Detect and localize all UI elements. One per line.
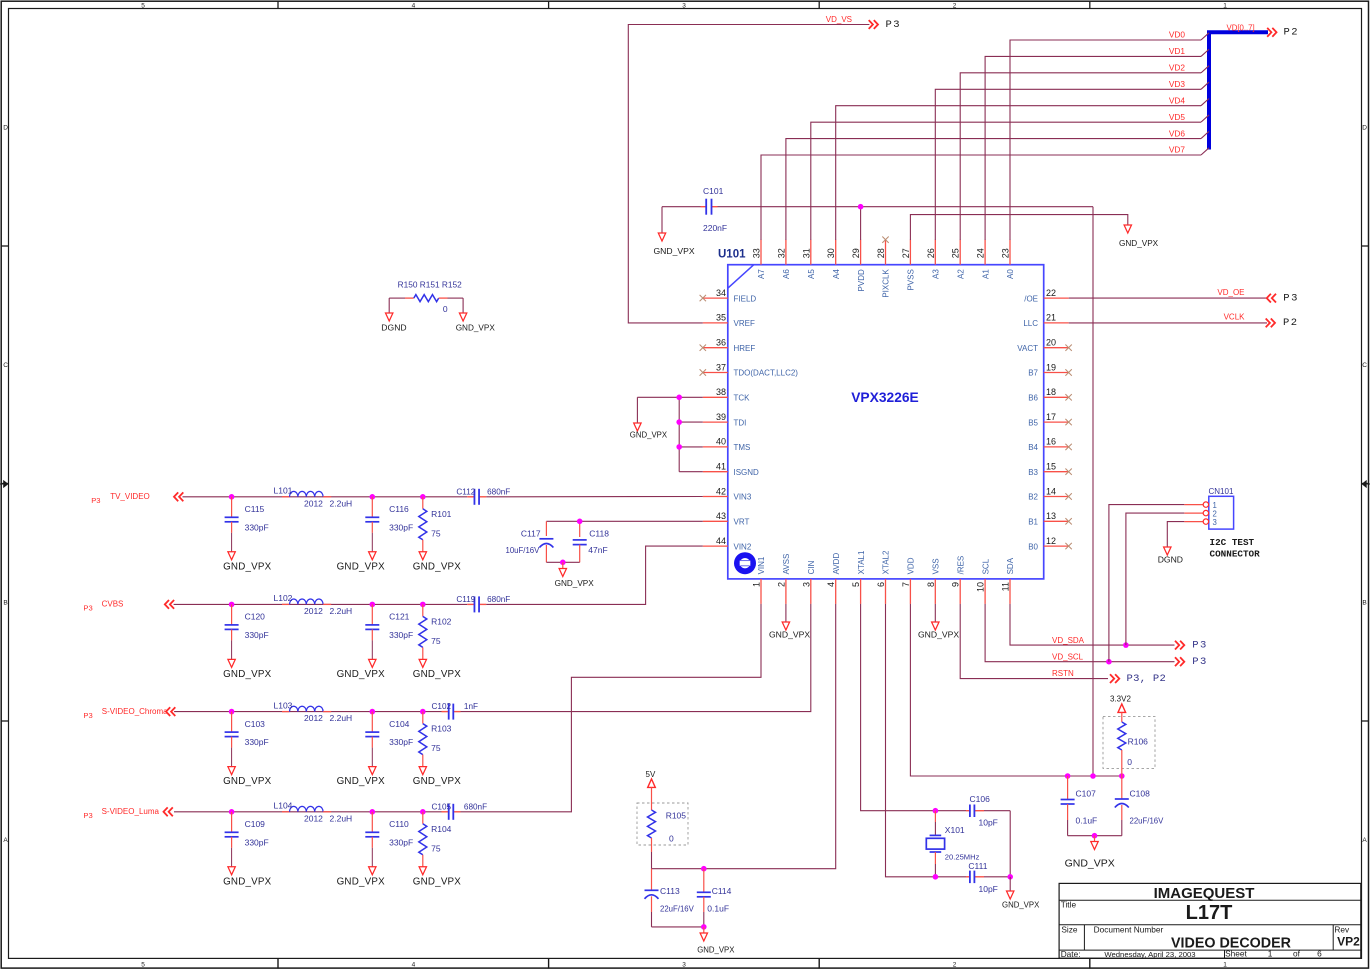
svg-text:XTAL1: XTAL1 (857, 550, 866, 574)
svg-text:22uF/16V: 22uF/16V (660, 904, 695, 913)
svg-text:C111: C111 (968, 861, 987, 871)
pin 40 TMS (703, 437, 751, 452)
pin 18 B6 (1028, 387, 1068, 402)
svg-text:30: 30 (826, 248, 836, 258)
no-connect pin 14 (1065, 493, 1071, 499)
pin 42 VIN3 (703, 486, 752, 501)
inductor L104 2.2uH (274, 801, 353, 824)
svg-text:10uF/16V: 10uF/16V (506, 546, 541, 555)
svg-text:GND_VPX: GND_VPX (223, 876, 271, 887)
ground GND_VPX at crystal (1002, 877, 1040, 910)
svg-text:P3: P3 (886, 19, 902, 31)
svg-text:R103: R103 (431, 724, 452, 734)
svg-text:5: 5 (141, 2, 145, 9)
svg-text:35: 35 (716, 313, 726, 323)
resistor R150 R151 R152 0 ohm (389, 280, 463, 314)
no-connect pin 34 (700, 295, 706, 301)
svg-text:B3: B3 (1028, 468, 1038, 477)
pin 29 PVDD (851, 240, 866, 292)
svg-text:XTAL2: XTAL2 (882, 550, 891, 574)
svg-text:P3: P3 (83, 711, 92, 720)
svg-text:10pF: 10pF (979, 884, 998, 894)
svg-text:0: 0 (1127, 757, 1132, 767)
svg-text:0: 0 (443, 304, 448, 314)
svg-text:P3: P3 (83, 604, 92, 613)
svg-text:C113: C113 (660, 886, 680, 896)
svg-text:GND_VPX: GND_VPX (337, 776, 385, 787)
svg-text:GND_VPX: GND_VPX (697, 946, 735, 955)
pin 22 /OE (1024, 288, 1068, 303)
svg-text:47nF: 47nF (588, 545, 607, 555)
svg-text:C116: C116 (389, 504, 409, 514)
svg-text:C: C (1362, 362, 1367, 369)
no-connect pin 15 (1065, 469, 1071, 475)
svg-text:42: 42 (716, 486, 726, 496)
port P3 P2 RSTN (1110, 673, 1166, 685)
svg-text:17: 17 (1046, 412, 1056, 422)
ground GND_VPX at C104 (337, 767, 385, 788)
svg-text:VIN1: VIN1 (757, 556, 766, 574)
svg-text:C120: C120 (245, 612, 266, 622)
svg-text:GND_VPX: GND_VPX (223, 669, 271, 680)
inductor L103 2.2uH (274, 700, 353, 723)
wire pin 8 VSS to ground (934, 604, 936, 622)
pin 19 B7 (1028, 362, 1068, 377)
svg-text:VPX3226E: VPX3226E (851, 390, 919, 405)
svg-text:PVSS: PVSS (907, 269, 916, 290)
wire TV_VIDEO to pin 42 VIN3 (486, 496, 703, 498)
wire TV_VIDEO (183, 496, 468, 498)
svg-text:TMS: TMS (734, 443, 751, 452)
svg-text:220nF: 220nF (703, 223, 727, 233)
svg-text:B2: B2 (1028, 493, 1038, 502)
svg-text:4: 4 (412, 961, 416, 968)
svg-text:A: A (3, 837, 8, 844)
svg-text:B: B (1362, 600, 1366, 607)
pin 43 VRT (703, 511, 750, 526)
svg-text:6: 6 (1317, 948, 1322, 958)
svg-text:19: 19 (1046, 362, 1056, 372)
svg-text:C101: C101 (703, 186, 724, 196)
ground GND_VPX at JTAG (630, 423, 668, 440)
ground DGND at CN101 (1158, 547, 1183, 565)
wire VD_VS from pin 35 VREF (628, 25, 869, 323)
svg-text:7: 7 (901, 582, 911, 587)
svg-text:GND_VPX: GND_VPX (337, 876, 385, 887)
svg-text:TCK: TCK (734, 394, 751, 403)
pin 5 XTAL1 (851, 550, 866, 604)
svg-text:Document Number: Document Number (1094, 924, 1164, 934)
svg-text:VD7: VD7 (1169, 145, 1186, 155)
svg-text:VD4: VD4 (1169, 95, 1186, 105)
svg-text:A5: A5 (807, 269, 816, 279)
svg-text:5: 5 (851, 582, 861, 587)
svg-text:330pF: 330pF (389, 837, 413, 847)
svg-text:C109: C109 (245, 819, 266, 829)
no-connect pin 36 (700, 345, 706, 351)
svg-text:GND_VPX: GND_VPX (413, 776, 461, 787)
junction VD_SCL CN101 (1106, 659, 1112, 665)
svg-text:VD_VS: VD_VS (826, 15, 852, 24)
port P3 S-VIDEO_Chroma (83, 707, 175, 720)
junction C116 (370, 494, 376, 500)
svg-text:0.1uF: 0.1uF (1076, 816, 1098, 826)
svg-text:22uF/16V: 22uF/16V (1130, 817, 1165, 826)
svg-text:GND_VPX: GND_VPX (1119, 239, 1159, 248)
svg-text:VSS: VSS (932, 558, 941, 574)
svg-text:B: B (3, 600, 7, 607)
svg-text:VD_SCL: VD_SCL (1052, 653, 1084, 662)
svg-text:GND_VPX: GND_VPX (555, 579, 595, 588)
power 3.3V2 (1110, 695, 1131, 723)
no-connect pin 12 (1065, 543, 1071, 549)
junction C120 (229, 602, 235, 608)
svg-text:B5: B5 (1028, 418, 1038, 427)
svg-text:24: 24 (976, 248, 986, 258)
junction ground node (560, 560, 566, 566)
capacitor C103 330pF (225, 712, 269, 767)
svg-text:Date:: Date: (1061, 949, 1081, 959)
wire RSTN from pin 9 /RES (960, 604, 1108, 679)
pin 44 VIN2 (703, 536, 752, 551)
wire JTAG tie (637, 397, 702, 471)
ground GND_VPX at R104 (413, 867, 461, 888)
svg-text:X101: X101 (945, 825, 965, 835)
svg-text:2.2uH: 2.2uH (330, 713, 353, 723)
svg-text:GND_VPX: GND_VPX (223, 561, 271, 572)
svg-text:15: 15 (1046, 462, 1056, 472)
svg-text:AVSS: AVSS (782, 554, 791, 575)
ground DGND left (381, 313, 406, 332)
svg-text:40: 40 (716, 437, 726, 447)
svg-text:P2: P2 (1283, 317, 1299, 329)
no-connect pin 18 (1065, 394, 1071, 400)
pin 20 VACT (1017, 338, 1068, 353)
svg-text:VD6: VD6 (1169, 128, 1186, 138)
svg-text:Sheet: Sheet (1225, 948, 1247, 958)
svg-text:C106: C106 (970, 794, 991, 804)
pin 21 LLC (1023, 313, 1068, 328)
svg-text:2012: 2012 (304, 713, 323, 723)
crystal X101 20.25MHz (926, 811, 979, 877)
svg-text:CVBS: CVBS (102, 600, 124, 609)
svg-text:TV_VIDEO: TV_VIDEO (110, 492, 150, 501)
svg-text:P3: P3 (1192, 639, 1208, 651)
junction PVDD (858, 204, 864, 210)
power 5V (646, 770, 656, 795)
svg-text:C112: C112 (456, 487, 475, 496)
pin 30 A4 (826, 240, 841, 279)
pin 31 A5 (801, 240, 816, 279)
svg-text:C: C (3, 362, 8, 369)
svg-text:2: 2 (776, 582, 786, 587)
svg-text:VDD: VDD (907, 557, 916, 574)
wire VD7 (761, 148, 1209, 240)
svg-text:/RES: /RES (956, 556, 965, 575)
wire VD6 (786, 131, 1209, 240)
wire CN101 pin 3 to DGND (1167, 522, 1184, 547)
capacitor C121 330pF (365, 604, 413, 659)
wire VD2 (960, 66, 1209, 240)
svg-text:10pF: 10pF (979, 818, 998, 828)
pin 27 PVSS (901, 240, 916, 291)
svg-text:12: 12 (1046, 536, 1056, 546)
ground GND_VPX at PVSS (1119, 225, 1159, 248)
junction C111 right (1007, 874, 1013, 880)
ground GND_VPX at C115 (223, 552, 271, 573)
svg-text:D: D (1362, 125, 1367, 132)
svg-text:330pF: 330pF (245, 837, 269, 847)
pin 13 B1 (1028, 511, 1068, 526)
ground GND_VPX at R101 (413, 552, 461, 573)
label I2C TEST CONNECTOR (1210, 537, 1261, 560)
svg-text:C121: C121 (389, 612, 410, 622)
pin 17 B5 (1028, 412, 1068, 427)
svg-text:34: 34 (716, 288, 726, 298)
svg-text:TDI: TDI (734, 418, 747, 427)
svg-text:680nF: 680nF (487, 595, 510, 604)
port P2 VD[0..7] (1227, 24, 1300, 39)
wire CVBS to pin 44 VIN2 (486, 546, 703, 604)
svg-text:DGND: DGND (381, 322, 406, 332)
wire CVBS (174, 603, 468, 605)
pin 28 PIXCLK (876, 240, 891, 298)
pin 3 CIN (801, 560, 816, 604)
resistor R106 0 ohm (1103, 716, 1155, 776)
svg-text:GND_VPX: GND_VPX (413, 561, 461, 572)
svg-text:31: 31 (801, 248, 811, 258)
ground GND_VPX at C103 (223, 767, 271, 788)
svg-text:P3, P2: P3, P2 (1127, 673, 1167, 685)
port P3 VD_SDA (1175, 639, 1208, 651)
svg-text:33: 33 (752, 248, 762, 258)
svg-text:680nF: 680nF (464, 802, 487, 811)
junction ground C107 C108 (1092, 833, 1098, 839)
svg-text:B4: B4 (1028, 443, 1038, 452)
svg-text:C105: C105 (432, 802, 452, 811)
svg-text:L17T: L17T (1186, 902, 1233, 924)
junction R102 (420, 602, 426, 608)
junction R101 (420, 494, 426, 500)
svg-text:VD[0..7]: VD[0..7] (1227, 24, 1255, 33)
resistor R104 75 (419, 812, 452, 867)
svg-text:1: 1 (1223, 961, 1227, 968)
ground GND_VPX at C120 (223, 659, 271, 680)
svg-text:R104: R104 (431, 824, 452, 834)
inductor L101 2.2uH (274, 486, 353, 509)
no-connect pin 13 (1065, 518, 1071, 524)
svg-text:/OE: /OE (1024, 294, 1038, 303)
svg-text:20: 20 (1046, 338, 1056, 348)
svg-text:680nF: 680nF (487, 487, 510, 496)
svg-text:8: 8 (926, 582, 936, 587)
pin 33 A7 (752, 240, 767, 279)
wire CN101 pin 2 to VD_SDA (1126, 513, 1184, 645)
capacitor C110 330pF (365, 812, 413, 867)
svg-text:AVDD: AVDD (832, 553, 841, 575)
svg-text:S-VIDEO_Luma: S-VIDEO_Luma (102, 807, 160, 816)
port P3 VD_OE (1267, 292, 1299, 304)
svg-text:D: D (3, 125, 8, 132)
pin 24 A1 (976, 240, 991, 279)
svg-text:5V: 5V (646, 770, 656, 779)
svg-text:2.2uH: 2.2uH (330, 813, 353, 823)
pin 37 TDO(DACT,LLC2) (703, 362, 798, 377)
svg-text:Title: Title (1061, 900, 1077, 910)
wire VD_SDA from pin 11 SDA (1010, 604, 1175, 645)
capacitor C102 1nF (432, 702, 479, 719)
svg-text:LLC: LLC (1023, 319, 1038, 328)
wire C113 C114 bottom node (652, 926, 704, 928)
pin 2 AVSS (776, 554, 791, 604)
junction R104 (420, 809, 426, 815)
svg-text:13: 13 (1046, 511, 1056, 521)
svg-text:1: 1 (1268, 948, 1273, 958)
wire AVDD net (652, 604, 836, 869)
svg-text:IMAGEQUEST: IMAGEQUEST (1154, 885, 1255, 902)
svg-text:16: 16 (1046, 437, 1056, 447)
junction TMS (676, 444, 682, 450)
ground GND_VPX at R102 (413, 659, 461, 680)
svg-text:C103: C103 (245, 719, 266, 729)
pin 39 TDI (703, 412, 747, 427)
svg-text:32: 32 (776, 248, 786, 258)
svg-text:C114: C114 (712, 886, 732, 896)
pin 26 A3 (926, 240, 941, 279)
svg-text:C104: C104 (389, 719, 410, 729)
svg-text:P3: P3 (1283, 292, 1299, 304)
svg-text:GND_VPX: GND_VPX (1002, 901, 1040, 910)
ground GND_VPX at C121 (337, 659, 385, 680)
svg-text:3: 3 (682, 2, 686, 9)
wire R150 left to DGND (388, 298, 390, 313)
svg-text:1: 1 (752, 582, 762, 587)
svg-text:3.3V2: 3.3V2 (1110, 695, 1131, 704)
svg-text:GND_VPX: GND_VPX (413, 669, 461, 680)
wire VD0 (1010, 33, 1209, 240)
capacitor C114 0.1uF (697, 869, 732, 927)
svg-text:VD3: VD3 (1169, 79, 1186, 89)
svg-text:1: 1 (1223, 2, 1227, 9)
svg-text:27: 27 (901, 248, 911, 258)
svg-text:330pF: 330pF (389, 522, 413, 532)
no-connect pin 28 (882, 237, 888, 243)
pin 12 B0 (1028, 536, 1068, 551)
pin 16 B4 (1028, 437, 1068, 452)
wire C117 C118 bottom node (546, 561, 579, 563)
svg-text:B1: B1 (1028, 518, 1038, 527)
svg-text:9: 9 (951, 582, 961, 587)
capacitor C117 10uF/16V (506, 528, 554, 562)
no-connect pin 37 (700, 369, 706, 375)
svg-text:CIN: CIN (807, 560, 816, 574)
capacitor C113 22uF/16V (645, 869, 695, 927)
svg-text:GND_VPX: GND_VPX (769, 630, 810, 640)
no-connect pin 17 (1065, 419, 1071, 425)
junction C121 (370, 602, 376, 608)
svg-text:PVDD: PVDD (857, 269, 866, 291)
junction R106 bottom (1119, 773, 1125, 779)
bus VD[0..7] (1209, 32, 1268, 149)
svg-text:2012: 2012 (304, 813, 323, 823)
svg-text:VD0: VD0 (1169, 30, 1186, 40)
svg-text:VCLK: VCLK (1224, 313, 1246, 322)
svg-text:FIELD: FIELD (734, 294, 757, 303)
svg-text:P3: P3 (83, 811, 92, 820)
port P3 TV_VIDEO (91, 492, 183, 505)
svg-text:330pF: 330pF (389, 737, 413, 747)
svg-text:of: of (1293, 948, 1301, 958)
svg-text:U101: U101 (718, 249, 746, 261)
svg-text:A3: A3 (932, 269, 941, 279)
svg-text:R105: R105 (666, 810, 687, 820)
svg-text:39: 39 (716, 412, 726, 422)
svg-text:VACT: VACT (1017, 344, 1038, 353)
junction R103 (420, 709, 426, 715)
svg-text:P3: P3 (91, 496, 100, 505)
pin 1 VIN1 (752, 556, 767, 604)
pin 35 VREF (703, 313, 755, 328)
svg-text:330pF: 330pF (389, 630, 413, 640)
pin 6 XTAL2 (876, 550, 891, 604)
junction VD_SDA CN101 (1123, 642, 1129, 648)
svg-text:10: 10 (976, 582, 986, 592)
svg-text:6: 6 (876, 582, 886, 587)
svg-text:3: 3 (682, 961, 686, 968)
svg-text:VD_OE: VD_OE (1217, 288, 1244, 297)
junction ground C114 (701, 924, 707, 930)
svg-text:PIXCLK: PIXCLK (882, 269, 891, 298)
capacitor C106 10pF (966, 794, 998, 828)
capacitor C105 680nF (432, 802, 488, 819)
svg-text:38: 38 (716, 387, 726, 397)
capacitor C116 330pF (365, 497, 413, 552)
IC U101 VPX3226E (718, 249, 1044, 579)
capacitor C112 680nF (456, 487, 510, 504)
svg-text:0: 0 (669, 833, 674, 843)
svg-text:25: 25 (951, 248, 961, 258)
pin 38 TCK (703, 387, 750, 402)
svg-text:4: 4 (412, 2, 416, 9)
svg-text:DGND: DGND (1158, 555, 1183, 565)
svg-text:CONNECTOR: CONNECTOR (1210, 549, 1261, 560)
wire VRT node (546, 521, 702, 537)
title block (1059, 883, 1361, 959)
svg-text:36: 36 (716, 338, 726, 348)
svg-text:4: 4 (826, 582, 836, 587)
junction C107 top (1065, 773, 1071, 779)
svg-text:Wednesday, April 23, 2003: Wednesday, April 23, 2003 (1104, 950, 1195, 959)
wire C107 C108 bottom node (1068, 835, 1122, 837)
svg-text:A4: A4 (832, 269, 841, 279)
svg-text:P2: P2 (1284, 27, 1300, 39)
svg-text:5: 5 (141, 961, 145, 968)
wire S-VIDEO_Luma (174, 811, 442, 813)
inductor L102 2.2uH (274, 593, 353, 616)
port P3 VD_SCL (1175, 656, 1208, 668)
svg-text:GND_VPX: GND_VPX (1065, 858, 1115, 870)
wire VDD net (910, 604, 1121, 776)
wire pin 2 AVSS to ground (785, 604, 787, 622)
wire CN101 pin 1 to VD_SCL (1109, 505, 1184, 662)
svg-text:2012: 2012 (304, 498, 323, 508)
svg-text:A1: A1 (981, 269, 990, 279)
svg-text:VD1: VD1 (1169, 46, 1186, 56)
svg-text:C118: C118 (589, 528, 609, 538)
svg-text:43: 43 (716, 511, 726, 521)
wire VD_OE from pin 22 /OE (1069, 297, 1267, 299)
ground GND_VPX at C107 C108 (1065, 836, 1115, 870)
